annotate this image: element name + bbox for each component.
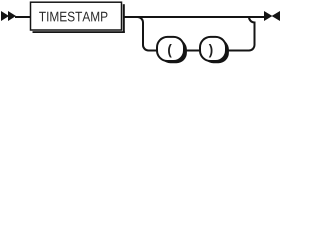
terminal box ( [157,37,184,61]
keyword box TIMESTAMP shadow bottom [33,31,125,33]
keyword box TIMESTAMP [31,2,122,30]
terminal box ) shadow [203,39,229,63]
optional-branch wire up-right [226,17,255,51]
wire between ( and ) [184,50,200,52]
main wire from box to end symbol [125,16,265,18]
end symbol (bowtie) [264,11,280,21]
terminal box ( shadow [160,39,187,63]
label ) [209,44,213,57]
optional-branch wire down-left [138,17,158,51]
label ( [168,44,172,57]
terminal box ) [200,37,226,61]
label TIMESTAMP [39,12,107,22]
keyword box TIMESTAMP shadow right [123,4,125,33]
wire from start to TIMESTAMP box [15,16,31,18]
start symbol (double arrowhead) [1,11,16,21]
